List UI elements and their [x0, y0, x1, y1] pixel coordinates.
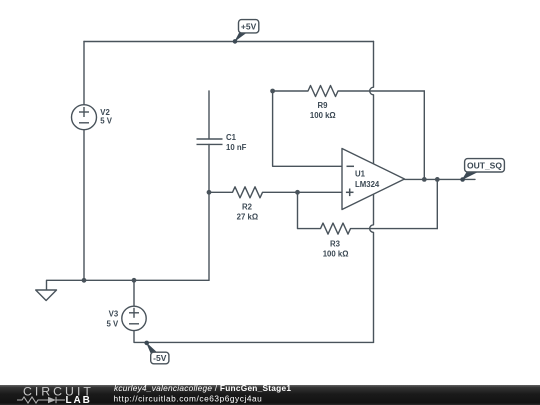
svg-text:OUT_SQ: OUT_SQ — [467, 161, 502, 171]
svg-text:+5V: +5V — [241, 22, 257, 32]
wire V2 branch lower — [83, 130, 85, 281]
svg-text:C1: C1 — [226, 133, 237, 142]
logo squiggle resistor-diode — [17, 397, 65, 403]
wire C1 branch top — [208, 91, 210, 139]
svg-text:R3: R3 — [330, 240, 341, 249]
svg-text:100 kΩ: 100 kΩ — [323, 250, 349, 259]
svg-text:kcurley4_valenciacollege / Fun: kcurley4_valenciacollege / FuncGen_Stage… — [114, 383, 291, 393]
svg-text:5 V: 5 V — [100, 117, 113, 126]
capacitor C1 — [197, 139, 223, 144]
svg-text:-5V: -5V — [153, 353, 167, 363]
svg-text:R9: R9 — [318, 101, 329, 110]
net flag OUT_SQ — [460, 159, 504, 182]
wire R3 right vertical to output — [436, 179, 438, 228]
op-amp U1 — [342, 149, 405, 210]
net flag -5V — [144, 341, 169, 364]
node junction dot R2 left — [207, 190, 212, 195]
wire op-amp negative supply with hop over R3 row — [370, 194, 374, 342]
wire R2 row with resistor R2 zigzag to non-inverting input — [209, 187, 342, 198]
svg-text:5 V: 5 V — [106, 320, 119, 329]
wire bottom ground rail — [47, 280, 210, 290]
node junction dot minus-branch — [270, 89, 275, 94]
node junction dot output R9 — [422, 177, 427, 182]
svg-text:R2: R2 — [242, 203, 253, 212]
svg-text:100 kΩ: 100 kΩ — [310, 111, 336, 120]
wire op-amp positive supply with hop over R9 row — [370, 42, 374, 164]
footer bar — [0, 385, 540, 405]
svg-text:V3: V3 — [109, 310, 119, 319]
net flag +5V — [233, 20, 259, 44]
wire R3 row with resistor R3 zigzag — [298, 192, 438, 234]
svg-text:http://circuitlab.com/ce63p6gy: http://circuitlab.com/ce63p6gycj4au — [114, 394, 263, 404]
wire inverting input branch — [273, 91, 342, 166]
wire op-amp output — [405, 178, 476, 180]
svg-text:27 kΩ: 27 kΩ — [237, 213, 258, 222]
wire C1 branch bottom — [208, 145, 210, 281]
node junction dot output R3 — [435, 177, 440, 182]
wire V3 stem lower and -5V rail — [134, 331, 374, 343]
wire V2 branch upper — [83, 42, 85, 105]
svg-text:10 nF: 10 nF — [226, 143, 247, 152]
node junction dot V2 bottom — [82, 278, 87, 283]
node junction dot V3 top — [132, 278, 137, 283]
svg-text:LM324: LM324 — [355, 180, 380, 189]
voltage source V2 — [72, 105, 97, 130]
svg-text:LAB: LAB — [66, 395, 92, 405]
wire top +5V rail — [84, 41, 374, 43]
svg-text:U1: U1 — [355, 170, 366, 179]
wire R9 row with resistor R9 zigzag — [273, 86, 425, 97]
voltage source V3 — [122, 306, 146, 330]
wire R9 right vertical to output — [423, 91, 425, 179]
ground — [36, 290, 57, 301]
node junction dot plus input — [295, 190, 300, 195]
wire V3 stem upper — [133, 280, 135, 306]
